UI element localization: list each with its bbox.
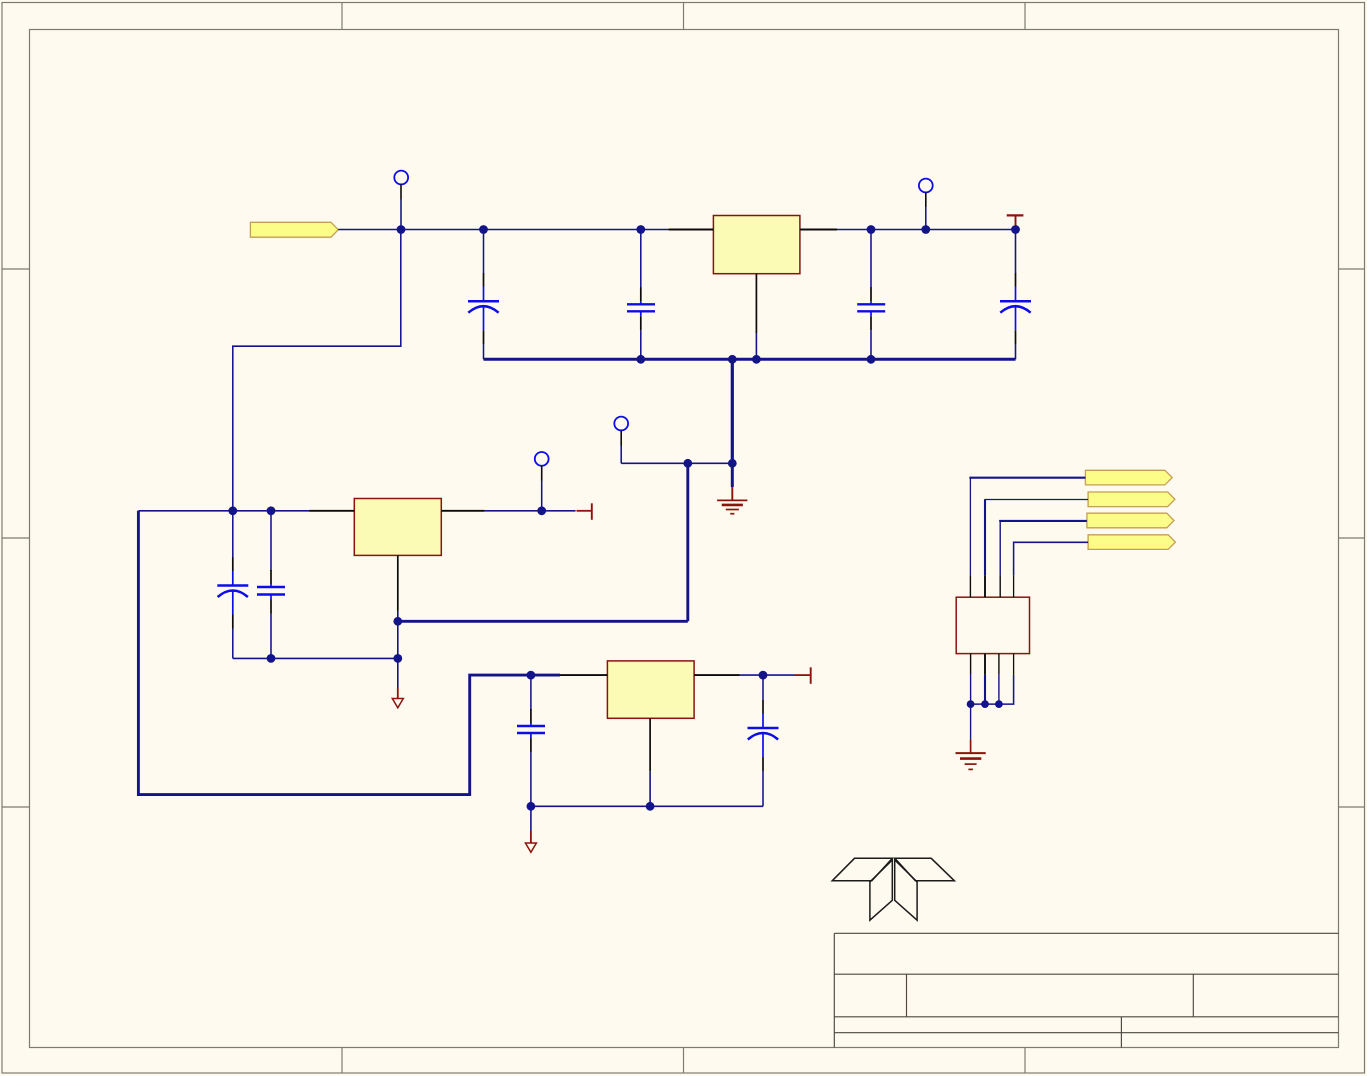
wire U3 bottom rail y806: [531, 805, 763, 807]
wire J1 pin2: [985, 500, 1088, 501]
U3 output wire: [740, 674, 795, 676]
wire gnd horizontal y621: [398, 620, 688, 623]
wire bottom rail y658: [233, 657, 398, 659]
capacitor C7 lead: [530, 675, 532, 710]
connector J1: [956, 597, 1029, 653]
testpoint TP2: [919, 179, 933, 193]
wire net VIN top rail: [338, 229, 1015, 231]
regulator U3: [607, 661, 694, 718]
wire VIN vertical drop: [233, 230, 401, 511]
capacitor C7: [517, 723, 545, 738]
capacitor C3: [857, 301, 885, 316]
capacitor C4 polarized: [1000, 301, 1031, 330]
J1 bottom wires to gnd: [970, 675, 972, 705]
company logo: [832, 858, 954, 920]
capacitor C3 lead: [870, 230, 872, 289]
capacitor C8 lead: [762, 675, 764, 700]
U2 input pin: [309, 510, 354, 512]
capacitor C6 lead: [270, 511, 272, 571]
port OUT3: [1087, 513, 1174, 528]
title block: [834, 933, 1338, 1047]
port OUT4: [1088, 535, 1175, 550]
capacitor C6: [257, 584, 285, 600]
capacitor C1 lead: [483, 230, 485, 274]
U1 gnd pin: [755, 274, 757, 333]
wire J1 pin3: [1000, 521, 1087, 522]
port OUT2: [1088, 492, 1175, 507]
earth ground GND4: [956, 704, 986, 769]
U3 input pin: [560, 674, 607, 676]
capacitor C5 polarized: [217, 586, 248, 615]
wire J1 pin1: [970, 478, 1085, 479]
U1 output pin: [800, 229, 837, 231]
regulator U2: [354, 499, 441, 556]
J1 top pins: [970, 575, 1013, 597]
power bar VOUT3: [795, 674, 811, 676]
earth ground GND1: [717, 463, 747, 513]
U2 gnd pin: [397, 555, 399, 610]
J1 bottom pins: [971, 654, 1014, 675]
U2 output pin: [441, 510, 485, 512]
U2 output wire: [485, 510, 576, 512]
port P1 (input supply): [250, 222, 338, 237]
regulator U1: [713, 216, 800, 274]
U3 output pin: [694, 674, 739, 676]
U1 input pin: [669, 229, 714, 231]
capacitor C8 polarized: [748, 728, 779, 757]
capacitor C1 polarized: [468, 301, 499, 330]
U3 gnd pin: [649, 718, 651, 771]
testpoint TP3: [535, 452, 549, 466]
capacitor C2: [627, 301, 655, 316]
wire VIN to U2 input: [138, 510, 309, 512]
wire VIN left loop to U3 input: [138, 511, 560, 795]
wire gnd rail y358: [484, 358, 1016, 361]
capacitor C5 lead: [232, 511, 234, 558]
power gnd arrow GND2: [397, 658, 399, 688]
wire J1 pin4: [1014, 542, 1089, 575]
port OUT1: [1085, 470, 1172, 485]
wire gnd vertical x688: [686, 463, 689, 621]
capacitor C4 lead: [1015, 230, 1017, 274]
power gnd arrow GND3: [530, 806, 532, 831]
wire gnd cross y463: [621, 462, 732, 464]
capacitor C2 lead: [640, 230, 642, 289]
power bar VOUT2: [577, 510, 592, 512]
wire gnd feed down: [731, 359, 734, 463]
testpoint TP1: [394, 171, 408, 185]
power bar VOUT1: [1007, 214, 1024, 216]
wire gnd tie rail y704: [971, 703, 999, 705]
testpoint TP4: [614, 417, 628, 431]
